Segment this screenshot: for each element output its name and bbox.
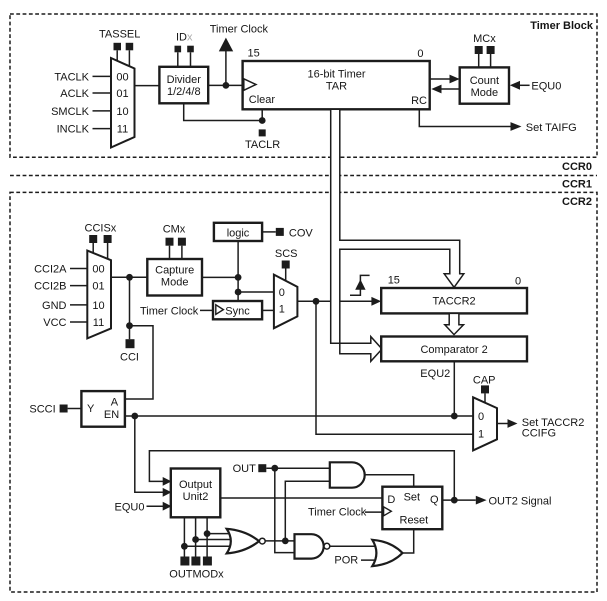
logic box bbox=[214, 223, 262, 241]
svg-text:RC: RC bbox=[411, 95, 427, 107]
svg-text:CCI: CCI bbox=[120, 351, 139, 363]
svg-text:A: A bbox=[111, 396, 119, 408]
NOR gate bbox=[227, 529, 259, 554]
svg-text:00: 00 bbox=[92, 264, 104, 276]
TACCR2 box bbox=[381, 288, 527, 313]
node NOR output junction bbox=[282, 538, 289, 545]
OUT control square bbox=[258, 464, 266, 472]
wire EN to CAP mux 0 long line bbox=[125, 415, 473, 417]
svg-text:CCISx: CCISx bbox=[85, 222, 117, 234]
CCR2 dashed border bbox=[10, 192, 597, 592]
svg-text:TAR: TAR bbox=[326, 80, 347, 92]
wire CMx stubs bbox=[169, 246, 171, 259]
wire VCC input bbox=[70, 321, 87, 323]
wire count mode to TAR bbox=[441, 88, 460, 90]
wire SCCI to EN box bbox=[68, 408, 82, 410]
TAR clock edge triangle bbox=[244, 79, 256, 91]
wire NAND output to OR bbox=[330, 545, 379, 547]
svg-text:Reset: Reset bbox=[400, 514, 429, 526]
svg-text:INCLK: INCLK bbox=[57, 124, 90, 136]
wire Q feedback bbox=[149, 451, 454, 500]
wire SMCLK input bbox=[93, 110, 112, 112]
svg-text:00: 00 bbox=[116, 71, 128, 83]
svg-text:ACLK: ACLK bbox=[60, 88, 89, 100]
svg-text:CCI2B: CCI2B bbox=[34, 281, 66, 293]
wire OUTMOD drop 3 bbox=[206, 517, 208, 556]
wire CCI2B input bbox=[70, 285, 87, 287]
flipflop clock triangle bbox=[384, 507, 392, 516]
wire sync output to SCS mux 1 bbox=[262, 309, 274, 311]
svg-text:Output: Output bbox=[179, 479, 212, 491]
wire TAR to count mode bbox=[430, 78, 451, 80]
svg-text:01: 01 bbox=[92, 281, 104, 293]
svg-text:IDx: IDx bbox=[176, 32, 193, 44]
svg-text:CCI2A: CCI2A bbox=[34, 264, 67, 276]
wire OUT to AND bbox=[266, 467, 330, 469]
CCR1 dashed separator line bbox=[10, 175, 597, 177]
svg-text:CAP: CAP bbox=[473, 374, 496, 386]
svg-text:Timer Clock: Timer Clock bbox=[140, 305, 199, 317]
wire POR input bbox=[361, 559, 379, 561]
svg-text:Timer Clock: Timer Clock bbox=[308, 506, 367, 518]
wire EQU0 to count mode bbox=[519, 84, 530, 86]
wire divider bottom to TACLR clear line bbox=[184, 103, 263, 120]
arrow Set TAIFG bbox=[511, 122, 522, 131]
svg-text:Count: Count bbox=[470, 75, 499, 87]
arrow feedback into output unit bbox=[163, 477, 172, 486]
svg-text:0: 0 bbox=[417, 48, 423, 60]
wire TASSEL square stubs bbox=[116, 50, 118, 61]
16-bit timer TAR box bbox=[243, 61, 430, 109]
svg-text:VCC: VCC bbox=[43, 317, 66, 329]
svg-text:EQU0: EQU0 bbox=[115, 502, 145, 514]
wire capture mode output bbox=[202, 276, 238, 278]
wire EQU0 into output unit bbox=[147, 505, 164, 507]
svg-text:0: 0 bbox=[279, 287, 285, 299]
node NOR input 3 bbox=[204, 530, 211, 537]
wire OUTMOD drop 1 bbox=[183, 517, 185, 556]
sync clock triangle bbox=[216, 305, 224, 315]
svg-text:COV: COV bbox=[289, 227, 314, 239]
svg-text:POR: POR bbox=[334, 555, 358, 567]
CAP control square bbox=[481, 385, 489, 393]
arrow timer clock up bbox=[219, 38, 233, 52]
NAND gate bbox=[295, 534, 324, 558]
node TACLR junction bbox=[259, 117, 266, 124]
wire divider output to TAR bbox=[208, 84, 242, 86]
svg-text:10: 10 bbox=[116, 106, 128, 118]
svg-text:Mode: Mode bbox=[161, 277, 189, 289]
arrow capture into TACCR2 bbox=[371, 297, 381, 306]
svg-text:SMCLK: SMCLK bbox=[51, 106, 90, 118]
ID control squares bbox=[175, 46, 182, 53]
svg-text:TACLK: TACLK bbox=[54, 71, 89, 83]
SCS control square bbox=[282, 261, 290, 269]
svg-text:CCR0: CCR0 bbox=[562, 161, 592, 173]
wire CCISx stubs bbox=[92, 243, 94, 253]
wire junction to SCS mux 0 bbox=[238, 291, 274, 293]
wire OUT drop to NAND bbox=[275, 468, 294, 552]
SCCI control square bbox=[60, 405, 68, 413]
node capture out junction bbox=[235, 274, 242, 281]
wire EQU2 drop bbox=[453, 361, 455, 416]
svg-text:D: D bbox=[387, 494, 395, 506]
node NOR input 1 bbox=[181, 543, 188, 550]
svg-text:CMx: CMx bbox=[163, 223, 186, 235]
svg-text:GND: GND bbox=[42, 300, 67, 312]
mux CAP bbox=[473, 397, 497, 450]
NAND bubble bbox=[324, 543, 330, 549]
svg-text:15: 15 bbox=[248, 47, 260, 59]
node EQU2 junction bbox=[451, 413, 458, 420]
comparator 2 box bbox=[381, 337, 527, 362]
OUTMODx control squares bbox=[180, 557, 189, 566]
svg-text:Q: Q bbox=[430, 494, 439, 506]
arrow EQU0 into output unit bbox=[163, 502, 172, 511]
COV control square bbox=[276, 228, 284, 236]
svg-text:1: 1 bbox=[478, 428, 484, 440]
node CCI branch junction bbox=[126, 322, 133, 329]
svg-text:Set: Set bbox=[404, 492, 421, 504]
AND gate bbox=[330, 462, 365, 487]
svg-text:Unit2: Unit2 bbox=[183, 491, 209, 503]
svg-text:1: 1 bbox=[279, 303, 285, 315]
mux TASSEL (clock source select) bbox=[111, 58, 135, 148]
svg-text:MCx: MCx bbox=[473, 33, 496, 45]
svg-text:logic: logic bbox=[227, 227, 250, 239]
svg-text:CCIFG: CCIFG bbox=[522, 428, 556, 440]
svg-text:Y: Y bbox=[87, 403, 95, 415]
wire NOR input line 1 bbox=[184, 545, 233, 547]
wire mux1 output to divider bbox=[135, 85, 160, 87]
wire CCI drop bbox=[129, 277, 131, 339]
svg-text:EQU2: EQU2 bbox=[420, 368, 450, 380]
wire NOR riser to AND bbox=[285, 481, 330, 541]
svg-text:15: 15 bbox=[388, 274, 400, 286]
node EN output junction bbox=[131, 413, 138, 420]
wire ID square stubs bbox=[177, 52, 179, 67]
CCISx control squares bbox=[89, 235, 97, 243]
wire NOR output bbox=[265, 540, 294, 542]
latch edge symbol bbox=[350, 275, 370, 295]
svg-text:11: 11 bbox=[93, 317, 104, 329]
svg-text:Timer Clock: Timer Clock bbox=[210, 24, 269, 36]
wire CCI2A input bbox=[70, 268, 87, 270]
svg-text:TASSEL: TASSEL bbox=[99, 29, 140, 41]
svg-text:OUT2 Signal: OUT2 Signal bbox=[489, 496, 552, 508]
wire SCS mux output to TACCR2 latch bbox=[297, 300, 372, 302]
svg-text:OUT: OUT bbox=[233, 463, 257, 475]
svg-text:EQU0: EQU0 bbox=[531, 81, 561, 93]
wire mux2 output to capture mode bbox=[111, 276, 147, 278]
wire logic to COV bbox=[262, 231, 276, 233]
svg-text:TACCR2: TACCR2 bbox=[432, 296, 475, 308]
CMx control squares bbox=[166, 238, 174, 246]
bus 16-bit from TAR to TACCR2 and Comparator 2 bbox=[331, 109, 464, 361]
wire output unit to D input bbox=[220, 497, 382, 499]
wire NOR input line 2 bbox=[196, 539, 233, 541]
arrow Set TACCR2 CCIFG bbox=[508, 419, 518, 428]
output unit2 box bbox=[171, 469, 221, 518]
wire ACLK input bbox=[93, 92, 112, 94]
OR gate POR bbox=[372, 540, 402, 566]
svg-text:CCR1: CCR1 bbox=[562, 179, 592, 191]
wire OR output to flipflop reset bbox=[403, 529, 414, 553]
wire CCI branch to EN A input bbox=[125, 326, 153, 399]
svg-text:Divider: Divider bbox=[167, 74, 202, 86]
svg-text:10: 10 bbox=[92, 300, 104, 312]
divider box bbox=[159, 67, 208, 104]
TASSEL control squares bbox=[114, 43, 122, 51]
node NOR input 2 bbox=[192, 536, 199, 543]
node capture signal junction bbox=[313, 298, 320, 305]
svg-text:TACLR: TACLR bbox=[245, 139, 280, 151]
svg-text:1/2/4/8: 1/2/4/8 bbox=[167, 86, 201, 98]
node timer clock junction bbox=[223, 82, 230, 89]
CCI control square bbox=[126, 339, 135, 348]
MCx control squares bbox=[475, 46, 483, 54]
wire TACLK input bbox=[93, 75, 112, 77]
wire AND output to flipflop set bbox=[365, 475, 414, 487]
svg-text:Clear: Clear bbox=[249, 94, 276, 106]
wire INCLK input bbox=[93, 128, 112, 130]
svg-text:0: 0 bbox=[478, 411, 484, 423]
svg-text:Capture: Capture bbox=[155, 265, 194, 277]
arrow into TAR bbox=[431, 85, 441, 94]
arrow EQU0 into count mode bbox=[510, 81, 520, 90]
arrow EN into output unit bbox=[163, 488, 172, 497]
svg-text:11: 11 bbox=[117, 124, 128, 136]
svg-text:Mode: Mode bbox=[471, 87, 499, 99]
wire timer clock to flipflop bbox=[365, 511, 382, 513]
svg-text:Comparator 2: Comparator 2 bbox=[420, 344, 487, 356]
svg-text:16-bit Timer: 16-bit Timer bbox=[307, 68, 365, 80]
Timer Block dashed border bbox=[10, 14, 597, 157]
node CCI junction on output bbox=[126, 274, 133, 281]
node OUT junction bbox=[271, 465, 278, 472]
sync box bbox=[213, 301, 262, 319]
svg-text:SCS: SCS bbox=[275, 248, 298, 260]
svg-text:EN: EN bbox=[104, 409, 119, 421]
arrow OUT2 signal bbox=[476, 496, 487, 505]
wire EN drop to output unit bbox=[135, 416, 164, 492]
wire NOR input line 3 bbox=[207, 533, 233, 535]
svg-text:OUTMODx: OUTMODx bbox=[169, 569, 224, 581]
svg-text:CCR2: CCR2 bbox=[562, 196, 592, 208]
svg-text:Set TAIFG: Set TAIFG bbox=[526, 122, 577, 134]
capture mode box bbox=[147, 259, 202, 296]
svg-text:0: 0 bbox=[515, 275, 521, 287]
NOR bubble bbox=[259, 538, 265, 544]
node SCS 0 junction bbox=[235, 289, 242, 296]
wire capture drop to CAP mux 1 bbox=[316, 301, 473, 434]
wire Set TAIFG bbox=[419, 109, 510, 126]
wire GND input bbox=[70, 304, 87, 306]
count mode box bbox=[460, 67, 509, 103]
wire timer clock riser bbox=[225, 50, 227, 85]
wire Q output bbox=[442, 499, 476, 501]
svg-text:SCCI: SCCI bbox=[29, 404, 55, 416]
wire timer clock to sync bbox=[200, 309, 213, 311]
wire SCS stub bbox=[285, 269, 287, 282]
svg-text:Timer Block: Timer Block bbox=[530, 20, 594, 32]
wire logic drop through junctions to sync bbox=[237, 241, 239, 301]
TACLR control square bbox=[259, 129, 266, 136]
bus TACCR2 to comparator hollow arrow bbox=[445, 313, 464, 334]
arrow into count mode bbox=[450, 75, 460, 84]
mux SCS bbox=[274, 275, 298, 329]
wire CAP mux output bbox=[497, 423, 508, 425]
wire CAP stub bbox=[484, 393, 486, 403]
mux CCIS (capture input select) bbox=[87, 251, 111, 339]
svg-text:01: 01 bbox=[116, 88, 128, 100]
wire MCx stubs bbox=[478, 54, 480, 67]
svg-text:Sync: Sync bbox=[225, 305, 250, 317]
node Q junction bbox=[451, 497, 458, 504]
EN latch box bbox=[81, 391, 125, 427]
wire OUTMOD drop 2 bbox=[195, 517, 197, 556]
flipflop box bbox=[382, 487, 442, 530]
